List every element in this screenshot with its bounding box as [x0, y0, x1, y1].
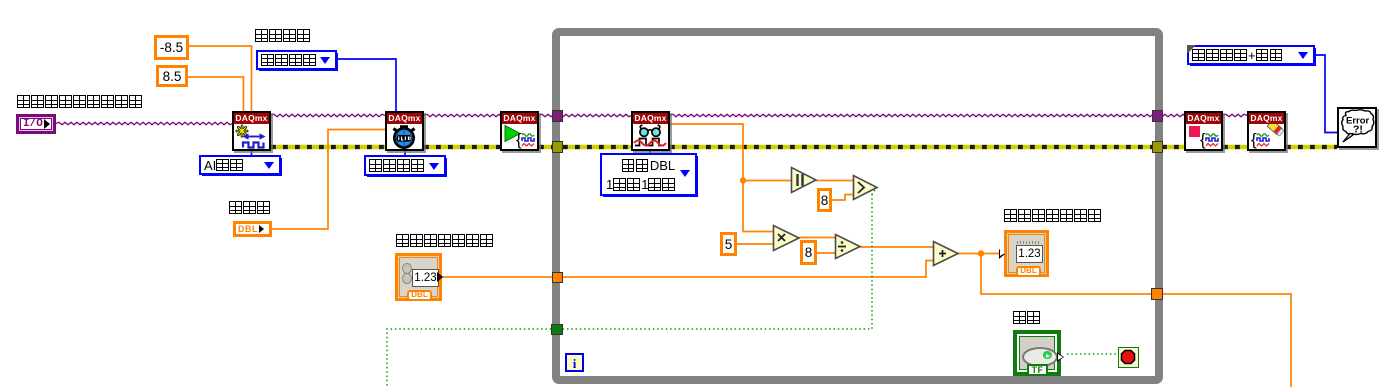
svg-text:?!: ?! [1353, 124, 1363, 136]
svg-text:{: { [516, 130, 522, 149]
svg-text:{: { [1251, 130, 1257, 149]
svg-text:{: { [1200, 130, 1206, 149]
